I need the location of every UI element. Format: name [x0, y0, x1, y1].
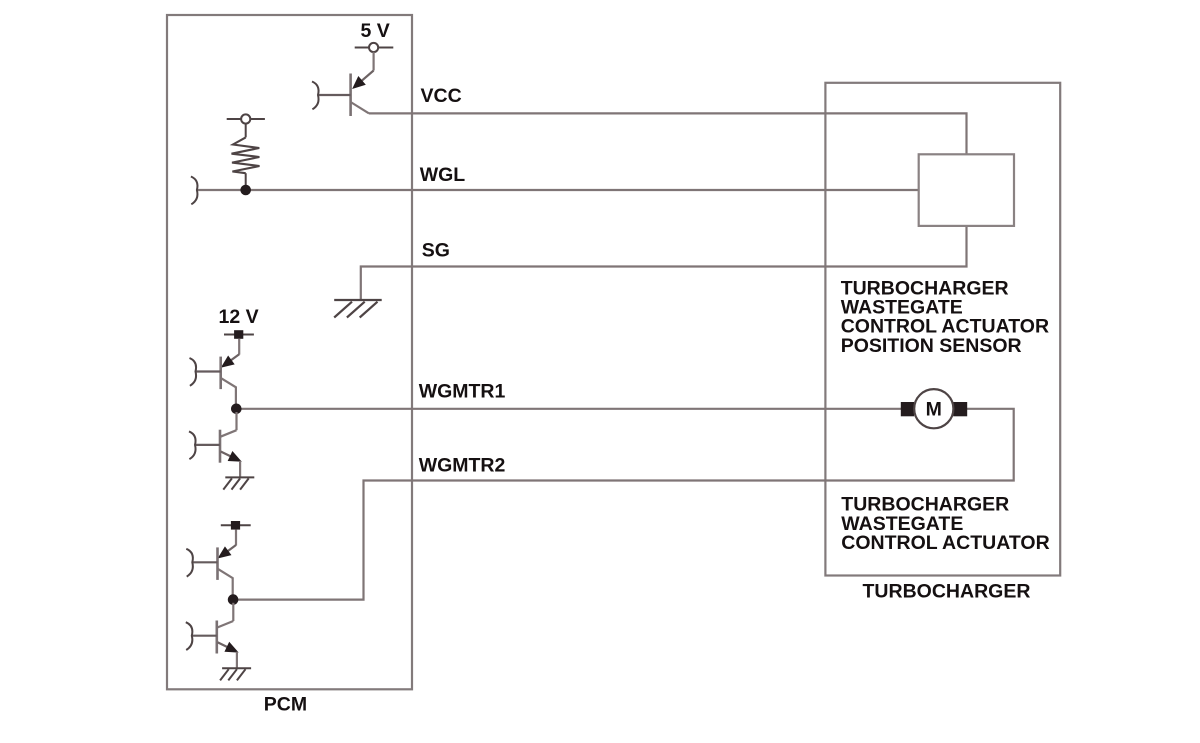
- transistor Q4 (driver2 high side): [192, 530, 236, 596]
- svg-text:WGMTR2: WGMTR2: [419, 454, 506, 476]
- transistor Q1 (5V PNP): [318, 52, 374, 116]
- off-page connector (Q4 base): [186, 549, 193, 577]
- motor M: [901, 389, 967, 428]
- wire WGMTR2: [233, 409, 1014, 600]
- svg-text:WGL: WGL: [420, 164, 466, 186]
- svg-text:VCC: VCC: [421, 85, 462, 107]
- wire VCC: [369, 113, 967, 154]
- ground (driver 1): [223, 477, 254, 489]
- off-page connector (Q1 base): [312, 82, 319, 110]
- 5 V terminal: [355, 43, 394, 52]
- wire SG: [361, 226, 967, 300]
- position sensor box: [919, 154, 1014, 226]
- svg-text:12 V: 12 V: [219, 306, 259, 328]
- svg-text:WGMTR1: WGMTR1: [419, 380, 506, 402]
- off-page connector (Q3 base): [189, 431, 196, 459]
- svg-text:SG: SG: [422, 240, 450, 262]
- ground (driver 2): [220, 668, 251, 680]
- off-page connector (WGL): [191, 177, 198, 205]
- junction dot (driver 2 output): [228, 594, 239, 605]
- 12 V terminal (driver 1): [224, 330, 254, 339]
- svg-text:POSITION SENSOR: POSITION SENSOR: [841, 335, 1022, 357]
- resistor R1: [227, 114, 265, 185]
- transistor Q5 (driver2 low side): [192, 603, 237, 668]
- off-page connector (Q5 base): [186, 622, 193, 650]
- transistor Q3 (driver1 low side): [195, 412, 240, 477]
- turbocharger box: [825, 83, 1060, 576]
- junction dot (WGL / R1): [240, 185, 251, 196]
- battery terminal (driver 2): [221, 521, 251, 530]
- wire WGL: [197, 189, 919, 191]
- PCM box: [167, 15, 412, 689]
- transistor Q2 (driver1 high side): [196, 339, 240, 405]
- svg-text:PCM: PCM: [264, 694, 307, 716]
- junction dot (WGMTR1): [231, 404, 242, 415]
- svg-text:TURBOCHARGER: TURBOCHARGER: [863, 580, 1031, 602]
- svg-text:5 V: 5 V: [361, 20, 390, 42]
- ground (SG): [334, 300, 382, 318]
- wire WGMTR1: [236, 408, 901, 410]
- svg-text:CONTROL ACTUATOR: CONTROL ACTUATOR: [841, 532, 1049, 554]
- svg-text:M: M: [926, 399, 942, 421]
- off-page connector (Q2 base): [190, 358, 197, 386]
